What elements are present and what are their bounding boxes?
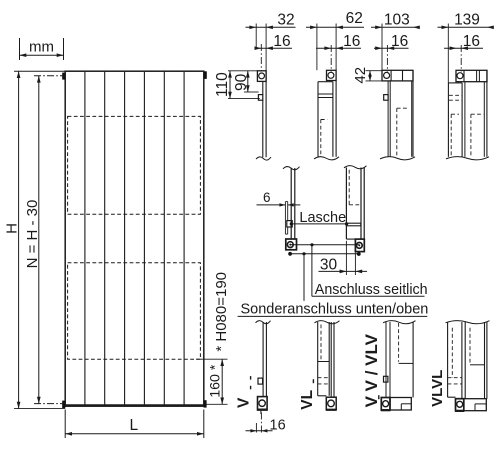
section4: rear body left wall xyxy=(464,82,466,157)
leader Sonderanschluss vertical xyxy=(303,254,305,301)
extension line radiator top to section1 xyxy=(228,70,257,72)
mounting tab top-left (black) xyxy=(62,73,65,80)
svg-text:mm: mm xyxy=(29,39,54,56)
variant VLV: bracket plate wall 1 xyxy=(385,322,387,398)
section2: dimension 16 line xyxy=(316,47,361,49)
variant V: tube rear wall xyxy=(265,322,267,397)
detail: Lasche plate top edge xyxy=(285,201,287,203)
extension line for 90 bottom xyxy=(244,91,259,93)
section4: rear body inner right wall xyxy=(483,82,485,157)
svg-text:N = H - 30: N = H - 30 xyxy=(24,200,41,269)
detail right: hidden dashed vertical xyxy=(348,170,350,205)
millimetre unit note: dimension line with arrows xyxy=(20,54,64,56)
section3: body right wall inner xyxy=(411,81,413,157)
section3: bracket plate wall 1 xyxy=(387,81,389,157)
detail left: side connection centre dot xyxy=(289,244,291,246)
extension line top edge to left xyxy=(14,70,65,72)
svg-text:160 *: 160 * xyxy=(207,364,223,398)
underline Sonderanschluss xyxy=(238,315,428,317)
section3: top header box xyxy=(382,70,413,81)
section4: front panel right wall xyxy=(461,83,463,157)
dimension 30 line xyxy=(319,270,368,272)
variant VLV: hidden dashed vertical xyxy=(398,323,400,362)
section1: bracket step line xyxy=(262,81,264,94)
detail right: Lasche band xyxy=(346,223,360,226)
variant V: stub below foot xyxy=(260,410,262,414)
radiator front view: panel seam line 2 xyxy=(104,72,106,406)
variant VLV: foot right box xyxy=(390,398,411,411)
variant VL: hidden dashed vertical xyxy=(320,325,322,362)
variant VL: hidden tab dashed 2 xyxy=(318,383,330,385)
dash-dot reference line N bottom xyxy=(34,403,65,405)
variant VLV: foot divider horizontal xyxy=(401,403,411,405)
svg-text:110: 110 xyxy=(214,72,231,97)
variant VLV: tab square xyxy=(384,376,388,382)
bottom connection junction dot xyxy=(302,252,305,255)
section2: front panel right wall xyxy=(332,82,334,157)
svg-text:103: 103 xyxy=(384,12,410,29)
variant VLV: valve circle xyxy=(383,401,389,407)
section4: header divider 2 xyxy=(476,70,478,81)
detail: Lasche leader dot left xyxy=(290,222,293,225)
svg-text:Anschluss seitlich: Anschluss seitlich xyxy=(315,282,428,298)
section3: header divider 2 xyxy=(402,70,404,81)
millimetre unit note: right tick xyxy=(63,38,65,60)
section3: dimension 42 line xyxy=(369,71,371,81)
detail right: side connection centre dot xyxy=(358,244,360,246)
dimension L line xyxy=(65,433,204,435)
bottom connection link line xyxy=(290,253,359,255)
section3: front reference line xyxy=(381,24,383,71)
variant VLVL: thick valve box bottom xyxy=(455,410,464,412)
dimension H line xyxy=(18,71,20,408)
section4: rear hidden channel dashed horizontal xyxy=(471,113,484,115)
section3: dimension 16 line xyxy=(374,47,409,49)
variant V: 16 reference tick xyxy=(255,423,257,433)
section1: break squiggle xyxy=(256,157,271,160)
radiator front view: panel seam line 1 xyxy=(84,72,86,406)
extension line from radiator bottom to right xyxy=(204,403,228,405)
radiator front view: panel seam line 4 xyxy=(143,72,145,406)
variant VLVL: hidden dashed vertical rear xyxy=(469,328,471,365)
section1: dimension 16 line xyxy=(257,47,292,49)
dimension 6 line left part xyxy=(257,204,286,206)
section2: front reference line xyxy=(316,24,318,71)
detail right: foot block xyxy=(355,239,364,252)
variant VLVL: mid wall 1 xyxy=(461,322,463,399)
variant VLV: seam line xyxy=(399,362,414,364)
section4: header divider 3 xyxy=(478,70,480,81)
section2: front panel left wall xyxy=(317,82,319,157)
svg-text:H: H xyxy=(4,223,21,234)
variant VLVL: foot divider horizontal xyxy=(475,403,486,405)
section2: rear profile line xyxy=(335,24,337,71)
section1: lower tab square xyxy=(258,95,262,101)
section2: hidden channel dashed vertical xyxy=(320,120,322,157)
variant VLVL: break squiggle xyxy=(446,321,490,324)
section4: header divider 1 xyxy=(463,70,465,81)
variant VLV: rear wall xyxy=(412,322,414,398)
section4: front reference line xyxy=(447,24,449,83)
section3: bracket hole circle xyxy=(384,72,390,78)
svg-text:90: 90 xyxy=(233,73,250,91)
section2: front panel top edge xyxy=(318,81,333,83)
variant V: foot block xyxy=(258,397,268,410)
variant V: connection circle xyxy=(259,400,265,406)
section3: rear wall xyxy=(412,70,414,157)
variant V: underscore mark 2 xyxy=(250,376,252,380)
variant V: tab square xyxy=(258,378,263,384)
svg-text:V: V xyxy=(235,397,252,408)
svg-text:16: 16 xyxy=(343,33,360,50)
detail left: foot block xyxy=(286,239,297,250)
mounting tab bottom-right (black) xyxy=(204,400,207,407)
detail left tube: front wall xyxy=(290,168,292,239)
section3: dimension 103 line xyxy=(371,26,418,28)
variant V: underscore mark 1 xyxy=(250,386,252,390)
radiator front view: panel seam line 3 xyxy=(124,72,126,406)
section2: dimension 62 line xyxy=(306,26,364,28)
variant VLVL: front panel left wall xyxy=(447,322,449,397)
radiator front view: thick bottom edge xyxy=(65,404,205,407)
section4: bracket hole circle xyxy=(457,73,463,79)
variant V: tube front wall xyxy=(262,322,264,397)
mounting tab bottom-left (black) xyxy=(62,401,65,408)
detail right: side connection ring xyxy=(356,243,362,249)
dimension 30: left extension line xyxy=(345,241,347,275)
variant VL: thick foot bottom xyxy=(326,409,337,411)
variant VLVL: hidden tab dashed 2 xyxy=(448,383,462,385)
section2: bracket hole circle xyxy=(328,72,334,78)
detail right tube: left wall xyxy=(345,168,347,240)
dimension 160 line xyxy=(221,359,223,404)
variant VLV: thick valve box bottom xyxy=(381,409,391,411)
side connection junction dot xyxy=(310,243,313,246)
variant VL: connection circle xyxy=(328,400,335,407)
variant VLVL: rear wall outer xyxy=(486,322,488,399)
section2: header seam line 1 xyxy=(318,93,333,95)
variant VL: rear wall outer xyxy=(333,322,335,397)
svg-text:Lasche: Lasche xyxy=(299,210,346,226)
variant V: thick foot bottom xyxy=(257,409,268,411)
detail: Lasche plate bottom edge xyxy=(285,233,287,235)
detail right tube: right wall outer xyxy=(363,168,365,252)
variant VLVL: hidden dashed vertical front xyxy=(451,328,453,378)
section4: dimension 16 line xyxy=(444,47,483,49)
dash-dot reference line N top xyxy=(34,75,65,77)
section1: bracket hole circle xyxy=(259,73,265,79)
section3: dimension 42 ext top xyxy=(366,70,383,72)
extension line for 110 bottom xyxy=(228,98,260,100)
variant VLV: break squiggle xyxy=(383,321,416,324)
svg-text:L: L xyxy=(129,417,138,434)
variant VLVL: foot right box xyxy=(464,399,487,411)
section4: front panel left wall xyxy=(447,83,449,157)
variant VLV: foot divider vertical xyxy=(400,404,402,410)
variant VLV: bracket plate wall 2 xyxy=(389,322,391,398)
variant V: dimension 16 line xyxy=(246,430,273,432)
variant VL: front panel left wall xyxy=(317,322,319,396)
detail: Lasche plate front edge xyxy=(284,202,286,235)
variant VLVL: foot divider vertical xyxy=(474,404,476,411)
dimension 6 line right part xyxy=(288,204,301,206)
upper bracket zone dashed rectangle xyxy=(68,116,201,214)
variant VLVL: front panel bottom edge xyxy=(448,396,456,398)
section3: hidden channel dashed vertical xyxy=(396,108,398,157)
variant VLVL: hidden tab dashed 1 xyxy=(448,377,462,379)
detail right: hidden dashed horizontal xyxy=(349,204,360,206)
section3: dimension 42 ext bottom xyxy=(366,80,385,82)
section1: dimension 32 line xyxy=(246,26,296,28)
extension line bottom edge to left xyxy=(14,408,65,410)
mounting tab top-right (black) xyxy=(204,71,207,79)
variant VLVL: mid wall 2 xyxy=(464,322,466,399)
detail: Lasche leader line xyxy=(291,223,346,225)
section4: dimension 139 line xyxy=(438,26,492,28)
variant V: break squiggle xyxy=(256,321,271,324)
detail: Lasche plate rear edge xyxy=(287,202,289,221)
section1: bracket head box xyxy=(257,71,266,82)
section2: hidden channel dashed horizontal xyxy=(321,119,327,121)
millimetre unit note: left tick xyxy=(19,38,21,60)
svg-text:VL: VL xyxy=(299,390,316,410)
variant V: foot step edge xyxy=(258,396,264,398)
svg-text:16: 16 xyxy=(273,33,290,50)
variant VL: rear wall inner xyxy=(330,322,332,397)
variant VL: underscore mark xyxy=(312,379,314,383)
section4: front panel top edge xyxy=(448,82,462,84)
section4: top header box xyxy=(456,70,487,81)
radiator front view: outer body xyxy=(65,71,204,406)
section1: front reference line xyxy=(255,24,257,49)
detail left tube: break squiggle xyxy=(283,167,300,170)
section1: panel rear wall xyxy=(265,71,267,157)
svg-text:6: 6 xyxy=(263,190,271,205)
variant VLV: underscore mark xyxy=(378,395,380,399)
section3: break squiggle xyxy=(380,157,415,160)
variant VLVL: valve foot block xyxy=(456,399,464,411)
variant VLVL: rear seam line xyxy=(470,364,485,366)
section1: rear reference/profile line xyxy=(265,24,267,71)
section4: hidden tab dashed line 1 xyxy=(449,94,462,96)
variant VLV: valve foot block xyxy=(381,398,390,411)
variant VL: foot block xyxy=(326,397,336,409)
section2: break squiggle xyxy=(314,157,339,160)
dimension 110 line xyxy=(229,71,231,99)
detail right tube: right wall inner xyxy=(360,168,362,240)
svg-text:16: 16 xyxy=(463,33,480,50)
section4: front hidden channel dashed horizontal xyxy=(451,113,459,115)
variant VLVL: rear wall inner xyxy=(484,322,486,399)
detail right tube: break squiggle xyxy=(344,166,367,169)
section1: centreline dash-dot xyxy=(260,44,262,72)
svg-text:16: 16 xyxy=(270,418,286,434)
radiator front view: panel seam line 5 xyxy=(163,72,165,406)
dimension 30: right extension line xyxy=(354,253,356,275)
dimension N line xyxy=(38,76,40,404)
radiator front view: panel seam line 6 xyxy=(183,72,185,406)
svg-text:30: 30 xyxy=(320,257,338,274)
section4: rear hidden channel dashed vertical xyxy=(470,114,472,157)
section2: rear wall xyxy=(335,81,337,157)
section3: hidden channel dashed horizontal xyxy=(397,107,407,109)
extension line bottom-left corner down xyxy=(64,410,66,439)
leader Anschluss seitlich vertical xyxy=(311,245,313,296)
variant VL: front panel bottom edge xyxy=(318,395,327,397)
detail left: side connection ring xyxy=(287,242,293,248)
variant VL: break squiggle xyxy=(315,321,340,324)
svg-text:Sonderanschluss unten/oben: Sonderanschluss unten/oben xyxy=(241,301,429,317)
variant VL: front panel right wall xyxy=(328,322,330,396)
svg-text:16: 16 xyxy=(391,33,408,50)
variant V: centreline dash-dot down xyxy=(260,413,262,434)
section3: lower tab square xyxy=(384,95,388,101)
section4: break squiggle xyxy=(446,157,489,160)
detail right: bottom connection dot xyxy=(357,252,361,256)
section3: header divider 1 xyxy=(390,70,392,81)
detail: Lasche tab square xyxy=(287,221,292,227)
section2: bracket head box xyxy=(327,70,337,80)
section2: centreline dash-dot xyxy=(330,45,332,72)
dimension 90 line xyxy=(247,71,249,92)
variant VLVL: valve circle xyxy=(457,401,463,407)
variant VL: seam line xyxy=(318,361,330,363)
svg-text:42: 42 xyxy=(352,67,369,84)
lower bracket zone dashed rectangle xyxy=(68,263,201,359)
extension line bottom-right corner down xyxy=(203,410,205,439)
underline Anschluss seitlich xyxy=(312,295,425,297)
detail: Lasche plate lower part xyxy=(287,227,289,234)
detail: Lasche leader dot right xyxy=(345,222,348,225)
svg-text:62: 62 xyxy=(346,10,363,27)
section4: rear wall outer xyxy=(486,70,488,157)
variant VL: hidden tab dashed 1 xyxy=(318,377,330,379)
section3: centreline dash-dot xyxy=(386,45,388,72)
side connection link line xyxy=(290,244,359,246)
svg-text:VLVL: VLVL xyxy=(429,370,446,407)
svg-text:* H080=190: * H080=190 xyxy=(213,272,230,352)
extension line from dashed zone bottom to right xyxy=(196,358,228,360)
section4: centreline dash-dot xyxy=(460,45,462,72)
section4: hidden tab dashed line 2 xyxy=(449,99,462,101)
section2: header seam line 2 xyxy=(318,97,333,99)
svg-text:139: 139 xyxy=(454,12,480,29)
section3: bracket plate wall 2 xyxy=(389,81,391,157)
detail right: body bottom edge xyxy=(346,238,355,240)
section1: panel front wall xyxy=(262,100,264,157)
section4: front hidden channel dashed vertical xyxy=(450,114,452,157)
detail left: bottom connection dot xyxy=(288,252,292,256)
detail left tube: rear wall xyxy=(294,168,296,239)
svg-text:32: 32 xyxy=(277,12,294,29)
